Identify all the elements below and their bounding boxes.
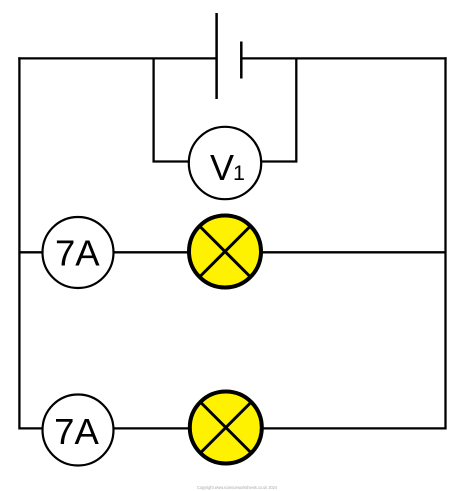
lamp L1 (middle branch) xyxy=(189,216,261,288)
svg-text:Copyright www.scienceworksheet: Copyright www.scienceworksheets.co.uk 20… xyxy=(197,485,277,490)
svg-text:V: V xyxy=(210,147,234,188)
voltmeter V1 xyxy=(189,127,261,199)
battery B1 long plate (positive) xyxy=(215,13,218,99)
wire top-left segment xyxy=(18,57,216,59)
wire top-right segment xyxy=(241,57,446,59)
wire middle branch xyxy=(19,251,445,253)
wire right side xyxy=(444,57,446,429)
wire voltmeter loop left xyxy=(154,58,189,161)
wire left side xyxy=(18,57,20,429)
wire bottom branch xyxy=(19,427,445,429)
svg-text:7A: 7A xyxy=(55,233,100,274)
svg-text:7A: 7A xyxy=(54,411,99,452)
battery B1 short plate (negative) xyxy=(240,42,243,79)
lamp L2 (bottom branch) xyxy=(190,392,262,464)
svg-text:1: 1 xyxy=(233,161,245,185)
wire voltmeter loop right xyxy=(261,58,296,161)
ammeter A2 (7A, bottom branch) xyxy=(43,395,114,466)
ammeter A1 (7A, middle branch) xyxy=(43,217,114,288)
